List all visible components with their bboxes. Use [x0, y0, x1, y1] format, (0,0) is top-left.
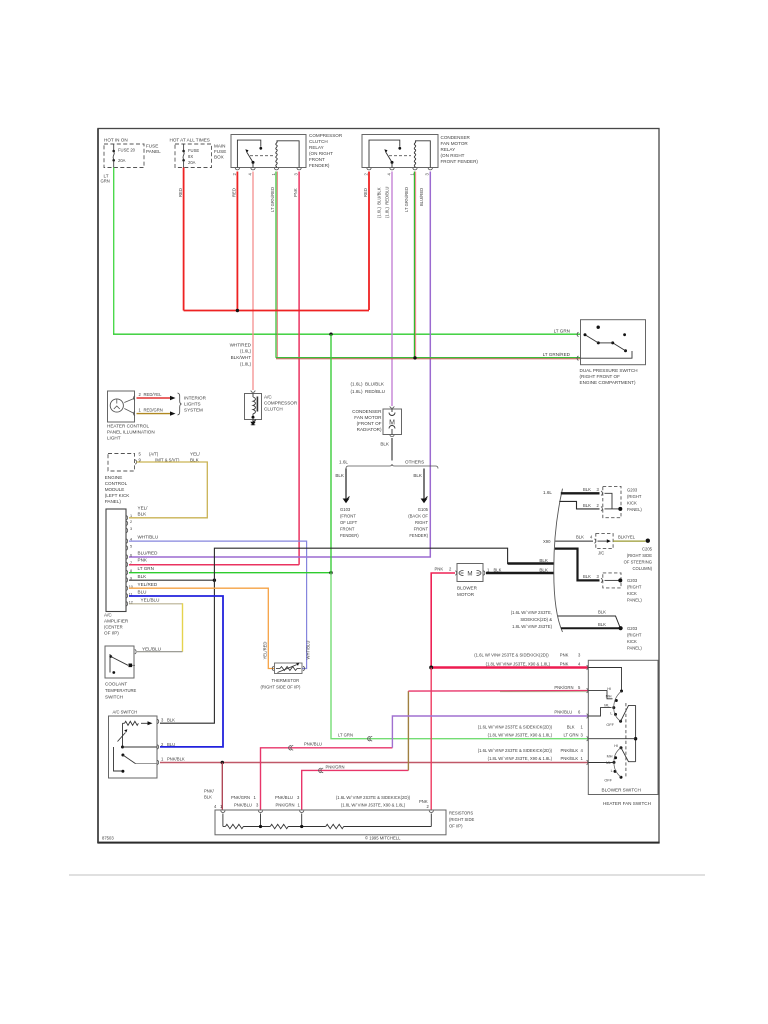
- svg-text:BLK: BLK: [583, 574, 591, 579]
- svg-text:X90: X90: [543, 539, 551, 544]
- wire PNK/BLK down to resistor: [221, 763, 223, 811]
- svg-text:BLU: BLU: [167, 742, 175, 747]
- svg-text:HOT AT ALL TIMES: HOT AT ALL TIMES: [170, 138, 210, 143]
- svg-text:MH: MH: [607, 754, 613, 758]
- svg-text:DUAL PRESSURE SWITCH: DUAL PRESSURE SWITCH: [580, 368, 638, 373]
- svg-text:PNK: PNK: [560, 662, 569, 667]
- svg-text:KICK: KICK: [627, 501, 637, 506]
- svg-text:A/C: A/C: [104, 613, 112, 618]
- svg-text:BLK/WHT: BLK/WHT: [231, 355, 252, 360]
- svg-text:PNK/BLU: PNK/BLU: [304, 742, 322, 747]
- wire PNK compressor pin3 down: [298, 172, 300, 565]
- ground below A/C clutch: [252, 420, 254, 422]
- svg-text:LT GRN/RED: LT GRN/RED: [270, 187, 275, 212]
- svg-text:LT GRN: LT GRN: [338, 733, 353, 738]
- junction connector J/C: [594, 534, 613, 556]
- wire PNK/BLU from resistor to blower switch: [261, 748, 393, 810]
- svg-text:(1.8L): (1.8L): [240, 362, 252, 367]
- svg-text:OTHERS: OTHERS: [405, 460, 424, 465]
- wire LT GRN/RED horizontal to dual pressure switch: [276, 357, 581, 359]
- contact dots dual pressure switch: [597, 326, 600, 329]
- svg-text:TEMPERATURE: TEMPERATURE: [105, 688, 137, 693]
- svg-text:A/C SWITCH: A/C SWITCH: [113, 710, 138, 715]
- svg-text:(FRONT OF: (FRONT OF: [357, 421, 382, 426]
- ground connector G203 middle: [601, 573, 642, 603]
- svg-text:L: L: [610, 712, 612, 716]
- svg-text:RELAY: RELAY: [441, 147, 456, 152]
- svg-text:RELAY: RELAY: [309, 145, 324, 150]
- ground G105: [421, 499, 428, 504]
- ground G103: [343, 499, 350, 504]
- svg-text:(FRONT: (FRONT: [340, 514, 356, 519]
- PNK/BLK input inside to lower wafer: [588, 762, 612, 764]
- svg-text:(RIGHT SIDE: (RIGHT SIDE: [627, 553, 652, 558]
- svg-text:PNK/BLU: PNK/BLU: [234, 803, 252, 808]
- svg-text:WHT/RED: WHT/RED: [230, 343, 252, 348]
- svg-text:GRN: GRN: [101, 179, 110, 184]
- svg-text:KICK: KICK: [627, 639, 637, 644]
- svg-text:(1.6L W/ VIN# 2S3TE & SIDEKICK: (1.6L W/ VIN# 2S3TE & SIDEKICK(2D)): [478, 724, 553, 729]
- svg-text:FUSE 20: FUSE 20: [118, 148, 136, 153]
- wire WHT/BLU pin4 to thermistor: [129, 541, 307, 668]
- black vertical net: [160, 548, 554, 723]
- svg-text:BLU/RED: BLU/RED: [138, 551, 159, 556]
- svg-text:AMPLIFIER: AMPLIFIER: [104, 619, 129, 624]
- svg-text:COOLANT: COOLANT: [105, 682, 127, 687]
- svg-text:6: 6: [130, 554, 132, 558]
- svg-text:YEL/BLU: YEL/BLU: [141, 598, 160, 603]
- wiper arm lower wafer: [621, 748, 636, 762]
- svg-text:M: M: [467, 570, 472, 577]
- svg-text:FENDER): FENDER): [309, 163, 330, 168]
- svg-text:BLK: BLK: [583, 503, 591, 508]
- svg-text:OFF: OFF: [606, 723, 614, 727]
- fuse 8 (HOT AT ALL TIMES): [170, 138, 227, 168]
- svg-text:PANEL): PANEL): [627, 507, 642, 512]
- green vertical from LT GRN bus down to blower switch row: [330, 334, 332, 573]
- wire LT GRN from fuse 20 down then right to dual pressure switch: [113, 168, 115, 335]
- svg-text:2: 2: [130, 520, 132, 524]
- svg-text:ML: ML: [604, 704, 609, 708]
- svg-text:FUSE: FUSE: [188, 148, 199, 153]
- LT GRN input inside: [588, 738, 635, 740]
- svg-text:PNK/BLU: PNK/BLU: [275, 795, 293, 800]
- junction on LT GRN: [329, 333, 332, 336]
- svg-text:(1.6L) BLU/BLK: (1.6L) BLU/BLK: [351, 381, 385, 386]
- svg-text:PNK/GRN: PNK/GRN: [326, 765, 345, 770]
- svg-text:SWITCH: SWITCH: [105, 695, 123, 700]
- svg-text:WHT/BLU: WHT/BLU: [138, 535, 159, 540]
- wire WHT/RED compressor pin4 to A/C clutch: [252, 172, 254, 391]
- svg-text:J/C: J/C: [598, 551, 604, 556]
- A/C compressor clutch: [245, 391, 298, 420]
- svg-text:CONTROL: CONTROL: [105, 481, 128, 486]
- heater control panel illumination light: [107, 391, 155, 441]
- wire BLK thick from blower motor: [486, 572, 554, 575]
- svg-text:MODULE: MODULE: [105, 487, 125, 492]
- svg-text:(1.6L): (1.6L): [240, 349, 252, 354]
- svg-text:BLK: BLK: [380, 442, 390, 447]
- svg-text:YEL/: YEL/: [138, 506, 149, 511]
- svg-text:PANEL: PANEL: [146, 149, 161, 154]
- svg-text:FENDER): FENDER): [340, 533, 359, 538]
- engine control module: [105, 452, 201, 505]
- svg-text:PNK/GRN: PNK/GRN: [231, 795, 250, 800]
- svg-text:MH: MH: [606, 695, 612, 699]
- svg-text:PNK/GRN: PNK/GRN: [554, 685, 573, 690]
- wire BLU/BLK / RED/BLU condenser pin4 to fan motor: [391, 172, 393, 407]
- A/C switch pin connectors: [157, 719, 158, 764]
- svg-text:THERMISTOR: THERMISTOR: [272, 678, 300, 683]
- svg-text:LIGHT: LIGHT: [107, 436, 121, 441]
- svg-text:CONDENSER: CONDENSER: [441, 135, 471, 140]
- svg-text:WHT/BLU: WHT/BLU: [306, 641, 311, 660]
- svg-text:1.6L: 1.6L: [543, 490, 552, 495]
- pin connectors condenser relay: [367, 168, 433, 170]
- svg-text:BLOWER: BLOWER: [457, 586, 478, 591]
- wire BLU pin11 to A/C switch: [129, 596, 223, 747]
- svg-text:ENGINE COMPARTMENT): ENGINE COMPARTMENT): [580, 380, 636, 385]
- svg-text:BLK: BLK: [539, 567, 549, 572]
- svg-text:BLK: BLK: [204, 795, 212, 800]
- lower wafer: [620, 746, 623, 749]
- wafer arcs: [614, 691, 622, 721]
- svg-text:SYSTEM: SYSTEM: [184, 408, 203, 413]
- footer separator line: [69, 874, 705, 876]
- junction: [236, 309, 239, 312]
- svg-text:COLUMN): COLUMN): [632, 566, 652, 571]
- svg-text:(1.8L W/ VIN# JS3TE, X90 & 1.8: (1.8L W/ VIN# JS3TE, X90 & 1.8L): [486, 662, 551, 667]
- svg-text:BLK: BLK: [413, 473, 423, 478]
- svg-text:A/C: A/C: [264, 395, 272, 400]
- svg-text:ENGINE: ENGINE: [105, 475, 123, 480]
- svg-text:PNK: PNK: [560, 653, 569, 658]
- wire PNK vertical down to resistor: [430, 668, 432, 811]
- svg-text:87503: 87503: [102, 835, 114, 840]
- svg-text:LT GRN/RED: LT GRN/RED: [543, 352, 571, 357]
- svg-text:PNK/BLU: PNK/BLU: [554, 710, 572, 715]
- svg-text:PNK: PNK: [435, 567, 444, 572]
- svg-text:PANEL ILLUMINATION: PANEL ILLUMINATION: [107, 430, 155, 435]
- wire common vertical blower switch: [635, 705, 637, 761]
- svg-text:YEL/BLU: YEL/BLU: [142, 647, 161, 652]
- blower switch box: [588, 660, 658, 794]
- svg-text:SIDEKICK(2D) &: SIDEKICK(2D) &: [520, 617, 552, 622]
- mechanical link dashed: [625, 703, 627, 778]
- svg-text:CLUTCH: CLUTCH: [264, 407, 283, 412]
- wire YEL/BLK from ECM to amplifier pin1: [129, 462, 207, 518]
- svg-text:(BACK OF: (BACK OF: [408, 514, 428, 519]
- resistor assembly box: [215, 810, 446, 835]
- svg-text:HEATER CONTROL: HEATER CONTROL: [107, 424, 149, 429]
- svg-text:FRONT: FRONT: [340, 527, 355, 532]
- svg-text:LT GRN: LT GRN: [564, 732, 579, 737]
- svg-text:C205: C205: [642, 547, 653, 552]
- svg-text:YEL/RED: YEL/RED: [138, 582, 158, 587]
- svg-text:BLK: BLK: [598, 610, 606, 615]
- wire RED compressor pin2: [236, 172, 238, 311]
- svg-text:1: 1: [130, 514, 132, 518]
- svg-text:HEATER FAN SWITCH: HEATER FAN SWITCH: [603, 801, 651, 806]
- svg-text:MAIN: MAIN: [214, 144, 225, 149]
- wire BLK/YEL to C205: [613, 540, 645, 542]
- svg-text:(RIGHT: (RIGHT: [627, 633, 642, 638]
- svg-text:YEL/: YEL/: [190, 452, 201, 457]
- junction pin8 with green vertical: [329, 571, 332, 574]
- svg-text:CONDENSER: CONDENSER: [352, 409, 382, 414]
- A/C amplifier: [106, 509, 126, 612]
- dual pressure switch: [543, 320, 646, 385]
- wire RED/GRN to interior lights: [137, 413, 171, 415]
- svg-text:(ON RIGHT: (ON RIGHT: [441, 153, 465, 158]
- svg-text:(1.8L) RED/BLU: (1.8L) RED/BLU: [351, 389, 385, 394]
- svg-text:RED/YEL: RED/YEL: [144, 392, 163, 397]
- svg-text:PNK/BLK: PNK/BLK: [561, 756, 579, 761]
- svg-text:OF I/P): OF I/P): [449, 824, 463, 829]
- coolant temperature switch: [105, 646, 161, 700]
- svg-text:BLK: BLK: [167, 717, 175, 722]
- wire LT GRN pin8: [129, 572, 331, 574]
- svg-text:HI: HI: [614, 744, 618, 748]
- svg-text:FUSE: FUSE: [146, 144, 158, 149]
- wiper arm upper wafer: [621, 705, 636, 721]
- svg-text:BLK: BLK: [567, 724, 575, 729]
- svg-text:BLU: BLU: [138, 590, 147, 595]
- svg-text:(RIGHT: (RIGHT: [627, 494, 642, 499]
- svg-text:(1.6L W/ VIN# 2S3TE & SIDEKICK: (1.6L W/ VIN# 2S3TE & SIDEKICK(2D)): [336, 795, 411, 800]
- svg-text:RESISTORS: RESISTORS: [449, 811, 473, 816]
- svg-text:OF I/P): OF I/P): [104, 631, 119, 636]
- svg-text:(1.6L W/ VIN# 2S3TE & SIDEKICK: (1.6L W/ VIN# 2S3TE & SIDEKICK(2D)): [474, 653, 549, 658]
- svg-text:BLU/RED: BLU/RED: [419, 188, 424, 206]
- svg-text:FRONT: FRONT: [309, 157, 325, 162]
- junction resistor node: [259, 825, 262, 828]
- svg-text:YEL/RED: YEL/RED: [263, 642, 268, 660]
- svg-text:BLK: BLK: [494, 567, 502, 572]
- wire BLK below fan motor: [391, 438, 393, 461]
- junction on LT GRN row: [634, 737, 637, 740]
- branch BLK 2: [559, 501, 599, 509]
- svg-text:(RIGHT: (RIGHT: [627, 585, 642, 590]
- svg-text:(RIGHT FRONT OF: (RIGHT FRONT OF: [580, 374, 621, 379]
- svg-text:(CENTER: (CENTER: [104, 625, 123, 630]
- wire PNK/BLK from A/C switch to blower switch: [160, 762, 588, 764]
- wire RED from fuse down to bus: [183, 168, 185, 311]
- wire RED/YEL to interior lights: [137, 397, 171, 399]
- svg-text:G103: G103: [340, 507, 351, 512]
- svg-text:RIGHT: RIGHT: [415, 520, 428, 525]
- wire PNK thick bus to blower switch: [431, 666, 588, 669]
- svg-text:PNK: PNK: [293, 188, 298, 197]
- wire BLK pin9: [129, 579, 214, 581]
- svg-text:BLK/YEL: BLK/YEL: [618, 535, 636, 540]
- svg-text:(1.6L W/ VIN# 2S3TE,: (1.6L W/ VIN# 2S3TE,: [511, 610, 552, 615]
- svg-text:BLOWER SWITCH: BLOWER SWITCH: [602, 788, 641, 793]
- svg-text:20A: 20A: [188, 160, 196, 165]
- wire YEL/BLU pin12 to coolant temp switch: [129, 603, 183, 605]
- svg-text:(1.8L) RED/BLU: (1.8L) RED/BLU: [385, 187, 390, 218]
- svg-text:PNK/BLK: PNK/BLK: [167, 757, 185, 762]
- svg-text:RED: RED: [231, 188, 236, 197]
- svg-text:(1.8L W/ VIN# JS3TE, X90 & 1.8: (1.8L W/ VIN# JS3TE, X90 & 1.8L): [341, 803, 406, 808]
- junction resistor node 2: [300, 825, 303, 828]
- svg-text:HI: HI: [607, 687, 611, 691]
- svg-text:LT GRN: LT GRN: [138, 566, 154, 571]
- A/C switch: [109, 710, 158, 779]
- wire BLK to ground G105: [423, 469, 425, 499]
- svg-text:RED/GRN: RED/GRN: [144, 408, 163, 413]
- svg-text:(LEFT KICK: (LEFT KICK: [105, 493, 131, 498]
- svg-text:G203: G203: [627, 578, 638, 583]
- pin connectors compressor relay: [235, 168, 301, 170]
- svg-text:OF STEERING: OF STEERING: [624, 560, 652, 565]
- svg-text:(ON RIGHT: (ON RIGHT: [309, 151, 333, 156]
- resistor pin connectors: [221, 811, 434, 813]
- wire RED bus: [184, 310, 369, 312]
- svg-text:KICK: KICK: [627, 591, 637, 596]
- ground connector G203 top: [601, 486, 642, 517]
- svg-text:(1.8L W/ VIN# JS3TE, X90 & 1.8: (1.8L W/ VIN# JS3TE, X90 & 1.8L): [488, 756, 553, 761]
- svg-text:BOX: BOX: [214, 155, 224, 160]
- wire BLK thick upper: [508, 562, 554, 565]
- svg-text:5: 5: [130, 545, 132, 549]
- svg-text:G203: G203: [627, 488, 638, 493]
- input connectors at box edge: [587, 665, 588, 764]
- wire inside dual pressure switch: [581, 351, 633, 358]
- wire BLK to ground G103: [345, 469, 347, 499]
- svg-text:(RIGHT SIDE: (RIGHT SIDE: [449, 817, 474, 822]
- svg-text:CLUTCH: CLUTCH: [309, 139, 328, 144]
- svg-text:PNK/: PNK/: [204, 789, 215, 794]
- svg-text:3: 3: [130, 527, 132, 531]
- svg-text:G105: G105: [418, 507, 429, 512]
- svg-text:G203: G203: [627, 626, 638, 631]
- svg-text:8X: 8X: [188, 154, 193, 159]
- svg-text:1.6L: 1.6L: [339, 460, 348, 465]
- svg-text:LT GRN: LT GRN: [554, 328, 570, 333]
- resistor internal wiring: [223, 814, 431, 829]
- wire RED condenser pin2: [368, 172, 370, 311]
- fuse 20 (HOT IN ON): [104, 138, 161, 168]
- svg-text:(RIGHT SIDE OF I/P): (RIGHT SIDE OF I/P): [261, 684, 302, 689]
- svg-text:OF LEFT: OF LEFT: [340, 520, 358, 525]
- svg-text:(1.8L W/ VIN# JS3TE, X90 & 1.8: (1.8L W/ VIN# JS3TE, X90 & 1.8L): [488, 732, 553, 737]
- svg-text:INTERIOR: INTERIOR: [184, 396, 207, 401]
- svg-text:PNK/GRN: PNK/GRN: [276, 803, 295, 808]
- amplifier pin connectors: [126, 516, 127, 606]
- wire PNK pin7: [129, 564, 299, 566]
- svg-text:PNK: PNK: [138, 558, 148, 563]
- svg-text:COMPRESSOR: COMPRESSOR: [309, 133, 343, 138]
- wire inside A/C switch to pin2: [123, 746, 158, 748]
- svg-text:PANEL): PANEL): [105, 499, 122, 504]
- wire LT GRN/RED compressor pin1: [275, 172, 277, 358]
- gather brace: [554, 489, 563, 632]
- svg-text:FAN MOTOR: FAN MOTOR: [354, 415, 382, 420]
- svg-text:OFF: OFF: [604, 779, 612, 783]
- svg-text:FUSE: FUSE: [214, 149, 226, 154]
- svg-text:RED: RED: [178, 188, 183, 197]
- svg-text:BLK: BLK: [583, 487, 591, 492]
- svg-text:LT GRN/RED: LT GRN/RED: [404, 187, 409, 212]
- svg-text:20A: 20A: [118, 158, 126, 163]
- thermistor: [261, 641, 311, 690]
- wire LT GRN/RED condenser pin1: [413, 172, 415, 358]
- svg-text:FRONT: FRONT: [414, 527, 429, 532]
- svg-text:(A/T): (A/T): [149, 452, 159, 457]
- svg-text:FENDER): FENDER): [409, 533, 428, 538]
- svg-text:BLK: BLK: [138, 574, 148, 579]
- svg-text:FRONT FENDER): FRONT FENDER): [441, 159, 479, 164]
- internal wiring upper wafer: [588, 668, 621, 690]
- svg-text:FAN MOTOR: FAN MOTOR: [441, 141, 469, 146]
- svg-text:BLK: BLK: [598, 622, 606, 627]
- svg-text:(1.6L) BLU/BLK: (1.6L) BLU/BLK: [377, 187, 382, 218]
- wire PNK feed to blower motor: [431, 573, 455, 668]
- svg-text:BLK: BLK: [335, 473, 345, 478]
- svg-text:L: L: [611, 769, 613, 773]
- split brace 1.6L / OTHERS: [346, 464, 438, 469]
- svg-text:PNK/BLK: PNK/BLK: [561, 748, 579, 753]
- compressor clutch relay: [231, 133, 343, 168]
- junction: [413, 356, 416, 359]
- interior lights system brace: [178, 393, 182, 415]
- condenser fan motor: [351, 381, 402, 436]
- svg-text:HOT IN ON: HOT IN ON: [104, 138, 128, 143]
- svg-text:LIGHTS: LIGHTS: [184, 402, 201, 407]
- svg-text:ML: ML: [606, 761, 611, 765]
- condenser fan motor relay: [362, 135, 478, 168]
- svg-text:RADIATOR): RADIATOR): [357, 427, 382, 432]
- svg-text:© 1995 MITCHELL: © 1995 MITCHELL: [365, 836, 401, 841]
- svg-text:BLK: BLK: [576, 535, 584, 540]
- pin numbers: [129, 514, 133, 604]
- svg-text:1.8L W/ VIN# JS3TE): 1.8L W/ VIN# JS3TE): [512, 624, 552, 629]
- branch BLK 3 lower: [555, 549, 600, 581]
- wire YEL/RED pin10 to thermistor: [129, 588, 275, 668]
- svg-text:(1.6L W/ VIN# 2S3TE & SIDEKICK: (1.6L W/ VIN# 2S3TE & SIDEKICK(2D)): [478, 748, 553, 753]
- svg-text:PANEL): PANEL): [627, 598, 642, 603]
- wire PNK/GRN from resistor to blower switch: [302, 770, 409, 810]
- inline connector on LT GRN: [368, 736, 373, 741]
- svg-text:RED: RED: [363, 188, 368, 197]
- svg-text:BLK: BLK: [138, 512, 148, 517]
- diagram frame: [98, 129, 659, 843]
- svg-text:COMPRESSOR: COMPRESSOR: [264, 401, 298, 406]
- svg-text:MOTOR: MOTOR: [457, 592, 475, 597]
- blower motor: [455, 564, 485, 598]
- wire BLU/RED condenser pin3 down to amplifier pin6: [129, 172, 430, 558]
- svg-text:PANEL): PANEL): [627, 646, 642, 651]
